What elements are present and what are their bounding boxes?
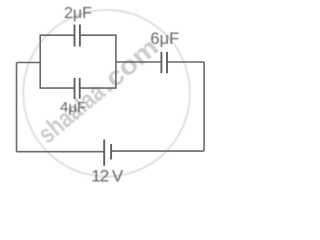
svg-text:12 V: 12 V [91,166,124,185]
svg-text:6μF: 6μF [150,30,179,48]
svg-text:2μF: 2μF [64,5,92,22]
svg-text:4μF: 4μF [60,99,86,116]
